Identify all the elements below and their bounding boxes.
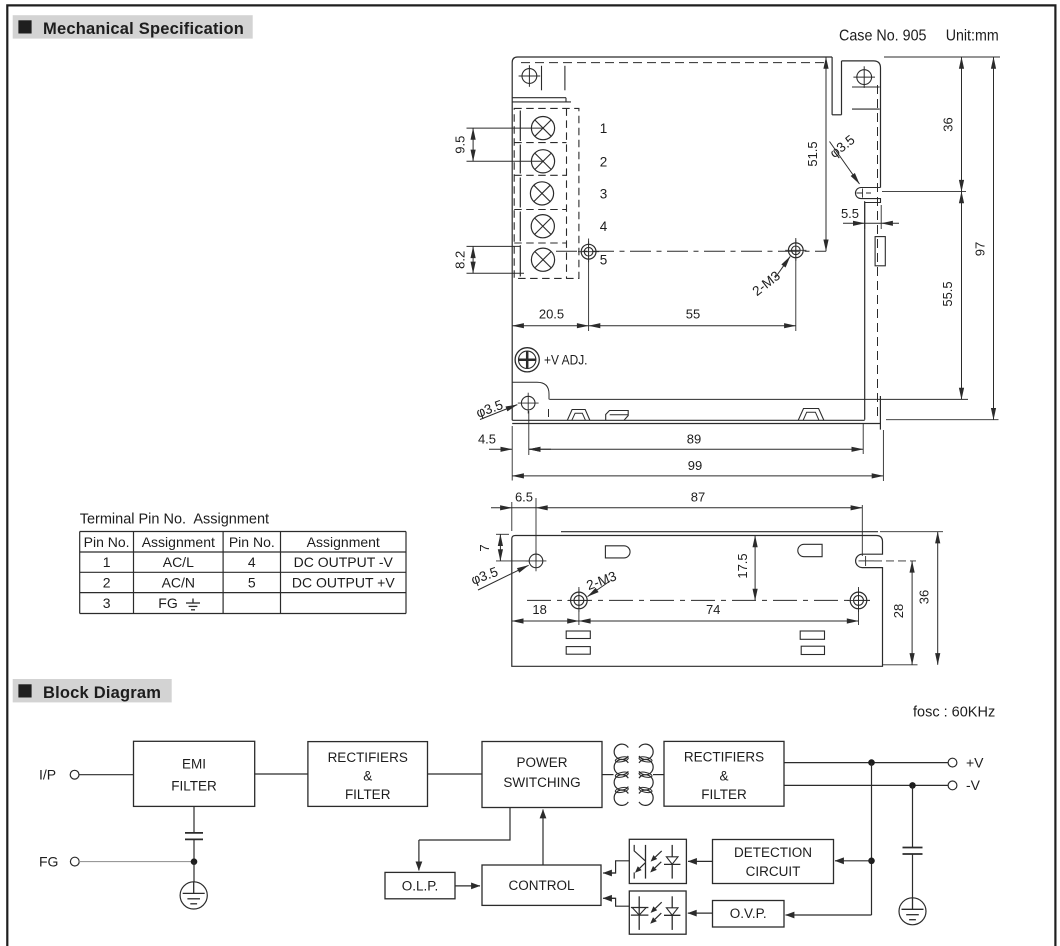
mounting hole phi3.5 (bottom-left) <box>521 396 535 410</box>
dim 9.5 extension lines <box>467 127 545 129</box>
terminal +V <box>948 758 957 767</box>
wire opto-isolator U2 to CONTROL (arrow) <box>606 898 629 906</box>
wire EMI FILTER to RECTIFIERS 1 <box>255 773 308 775</box>
block DETECTION CIRCUIT <box>713 840 834 884</box>
block O.L.P. <box>385 872 455 898</box>
opto-isolator U2 light arrows <box>655 902 661 908</box>
terminal 4 <box>531 215 554 238</box>
svg-text:FILTER: FILTER <box>171 779 217 794</box>
block CONTROL <box>482 865 601 905</box>
dim 55 <box>589 325 796 327</box>
dim 5.5 <box>843 222 865 224</box>
wire RECTIFIERS 1 to POWER SWITCHING <box>428 773 483 775</box>
top view: side clip tab <box>875 237 885 266</box>
svg-text:FG: FG <box>158 595 177 611</box>
opto-isolator U2 box <box>629 891 686 934</box>
svg-text:CONTROL: CONTROL <box>508 878 574 893</box>
dim 7 <box>499 534 501 561</box>
svg-text:-V: -V <box>966 777 981 793</box>
wire capacitor to ground <box>912 854 914 898</box>
screw hole in left tab <box>522 69 537 84</box>
wire O.L.P. to CONTROL (arrow) <box>455 885 480 887</box>
screw hole in right tab <box>857 70 872 85</box>
top view: cover top edge (hidden, dashed) <box>521 62 824 64</box>
svg-text:Block Diagram: Block Diagram <box>43 684 161 702</box>
side view: screw 2-M3 right <box>850 592 867 609</box>
svg-text:DC OUTPUT +V: DC OUTPUT +V <box>292 575 395 591</box>
dim 87 <box>536 507 862 509</box>
block RECTIFIERS & FILTER (input) <box>308 742 428 807</box>
wire transformer to RECTIFIERS 2 <box>653 774 664 776</box>
side view: slot cross ticks <box>859 560 875 562</box>
wire into DETECTION CIRCUIT (arrow) <box>835 860 872 862</box>
svg-text:87: 87 <box>691 490 705 505</box>
top view: rear notch <box>831 57 833 115</box>
opto-isolator U2 photodiode <box>638 896 640 930</box>
top view: foot clip 2 <box>606 411 629 421</box>
svg-text:&: & <box>719 769 728 784</box>
terminal block outline (dashed) <box>514 108 579 278</box>
top view: bottom-right flange <box>879 396 881 430</box>
wire POWER SWITCHING to O.L.P. (arrow down) <box>419 808 510 841</box>
svg-text:+V: +V <box>966 754 984 770</box>
opto-isolator U1 phototransistor <box>645 845 647 879</box>
top view: left edge <box>511 103 513 420</box>
top view: foot tab 1 (trapezoid) <box>567 410 590 421</box>
side view: top slot right (rounded left end) <box>798 544 822 556</box>
capacitor below EMI FILTER <box>193 806 195 833</box>
top view: left mounting tab <box>512 97 566 99</box>
svg-text:51.5: 51.5 <box>805 141 820 166</box>
svg-text:1: 1 <box>103 554 111 570</box>
dim 36 (top view) <box>961 57 963 192</box>
wire node to ground (input) <box>193 862 195 882</box>
block O.V.P. <box>713 901 785 928</box>
top view: bottom-left corner bracket <box>512 382 549 399</box>
svg-text:Terminal Pin No. Assignment: Terminal Pin No. Assignment <box>80 512 269 528</box>
opto-isolator U1 LED <box>671 845 673 857</box>
svg-text:O.V.P.: O.V.P. <box>730 906 767 921</box>
dim 17.5 <box>754 536 756 601</box>
svg-text:DETECTION: DETECTION <box>734 845 812 860</box>
svg-text:+V ADJ.: +V ADJ. <box>544 352 588 367</box>
dim 87 extension line (right) <box>861 505 863 556</box>
dim 9.5 <box>472 128 474 161</box>
svg-text:8.2: 8.2 <box>453 251 468 269</box>
node FG/capacitor junction <box>191 858 198 865</box>
dim 8.2 extension lines <box>467 245 521 247</box>
node on -V line <box>909 782 916 789</box>
wire -V output <box>784 784 948 786</box>
svg-text:FILTER: FILTER <box>345 787 391 802</box>
ground (output) <box>899 898 926 925</box>
dim 89 extension line (right) <box>862 424 864 454</box>
dim 6.5 extension lines <box>511 502 513 531</box>
wire +V output <box>784 762 948 764</box>
svg-text:Pin No.: Pin No. <box>84 534 130 550</box>
svg-text:4.5: 4.5 <box>478 432 496 447</box>
svg-text:18: 18 <box>532 602 546 617</box>
terminal 1 <box>531 117 554 140</box>
block RECTIFIERS & FILTER (output) <box>664 741 784 806</box>
svg-text:1: 1 <box>600 121 608 136</box>
chassis screw hole 2-M3 right (top view) <box>788 243 803 258</box>
wire I/P to EMI FILTER <box>79 774 134 776</box>
terminal 5 <box>531 248 554 271</box>
svg-text:Pin No.: Pin No. <box>229 534 275 550</box>
terminal block cell separators (dashed) <box>514 142 566 144</box>
wire FG to ground node <box>79 861 194 863</box>
dim 99 extension line (right) <box>882 430 884 481</box>
dim 4.5 <box>489 448 512 450</box>
svg-text:74: 74 <box>706 602 720 617</box>
svg-text:9.5: 9.5 <box>453 136 468 154</box>
top view: right mounting tab <box>842 61 881 188</box>
dim 4.5 extension lines <box>511 426 513 481</box>
svg-text:FG: FG <box>39 854 58 870</box>
potentiometer +V ADJ. <box>515 348 539 372</box>
svg-text:DC OUTPUT -V: DC OUTPUT -V <box>294 554 394 570</box>
svg-text:AC/L: AC/L <box>163 554 194 570</box>
side view: vent slots bottom right <box>800 631 824 639</box>
side view: top slot left (rounded right end) <box>605 546 630 558</box>
wire +V node down to detection/OVP <box>871 763 873 915</box>
svg-text:2: 2 <box>600 154 608 169</box>
top view: phi3.5 screw slot on right edge <box>855 188 880 203</box>
svg-text:SWITCHING: SWITCHING <box>503 775 580 790</box>
terminal 3 <box>530 182 553 205</box>
ground (input) <box>180 882 207 909</box>
svg-text:36: 36 <box>941 117 956 131</box>
svg-text:97: 97 <box>973 242 988 256</box>
svg-text:CIRCUIT: CIRCUIT <box>746 864 801 879</box>
dim 51.5 <box>825 57 827 251</box>
dim 74 <box>579 620 859 622</box>
svg-text:Assignment: Assignment <box>307 534 380 550</box>
center line through M3 holes (dashed) <box>556 250 826 252</box>
transformer T1 primary winding <box>614 744 628 805</box>
svg-text:4: 4 <box>248 554 256 570</box>
svg-text:6.5: 6.5 <box>515 490 533 505</box>
svg-text:99: 99 <box>688 458 702 473</box>
terminal pin assignment table grid <box>80 531 406 533</box>
opto-isolator U1 light arrows <box>655 851 661 857</box>
svg-text:FILTER: FILTER <box>701 787 747 802</box>
wire opto-isolator U1 to CONTROL (arrow) <box>606 861 629 873</box>
side view: mounting hole phi3.5 left <box>529 554 543 568</box>
dim 6.5 <box>491 507 512 509</box>
svg-text:5: 5 <box>600 253 608 268</box>
svg-text:O.L.P.: O.L.P. <box>402 878 439 893</box>
svg-text:Case No. 905: Case No. 905 <box>839 27 927 44</box>
svg-text:EMI: EMI <box>182 757 206 772</box>
wire into O.V.P. (arrow) <box>786 914 872 916</box>
dim 36 (side view) <box>937 532 939 665</box>
svg-text:Mechanical Specification: Mechanical Specification <box>43 20 244 38</box>
side view: center line (dashed) <box>527 599 870 601</box>
svg-text:Unit:mm: Unit:mm <box>946 27 999 44</box>
side view: outline <box>512 532 883 667</box>
dim 55.5 <box>961 192 963 400</box>
svg-text:3: 3 <box>600 186 608 201</box>
wire DETECTION to opto-isolator 1 (arrow) <box>688 860 713 862</box>
side view: screw 2-M3 left <box>571 592 588 609</box>
side view: vent slots bottom left <box>566 631 590 639</box>
svg-text:17.5: 17.5 <box>735 553 750 578</box>
block POWER SWITCHING <box>482 742 602 808</box>
terminal 2 <box>531 150 554 173</box>
dim 97 extension line (bottom) <box>886 419 999 421</box>
svg-text:POWER: POWER <box>516 755 567 770</box>
opto-isolator U2 LED <box>671 896 673 908</box>
top view: right side wall <box>864 202 866 420</box>
dim 36 extension lines (right) <box>884 56 1000 58</box>
svg-text:2: 2 <box>103 575 111 591</box>
dim 28 extension lines <box>883 664 918 666</box>
svg-text:3: 3 <box>103 595 111 611</box>
section header: Mechanical Specification <box>13 15 253 38</box>
dim 5.5 extension lines <box>864 201 866 229</box>
block EMI FILTER <box>134 741 255 806</box>
svg-text:5.5: 5.5 <box>841 206 859 221</box>
terminal block inner wall segments <box>519 111 521 142</box>
wire -V node to output capacitor <box>912 785 914 847</box>
dim 7 extension lines <box>496 533 509 535</box>
dim 20.5 <box>512 325 588 327</box>
section header: Block Diagram <box>13 679 172 702</box>
svg-text:I/P: I/P <box>39 767 56 783</box>
svg-text:fosc : 60KHz: fosc : 60KHz <box>913 705 995 721</box>
dim 97 <box>993 57 995 420</box>
dim 99 <box>512 475 883 477</box>
svg-text:89: 89 <box>687 432 701 447</box>
top view: foot tab 3 (trapezoid) <box>798 409 824 421</box>
svg-text:36: 36 <box>917 590 932 604</box>
chassis screw hole 2-M3 left <box>581 244 596 259</box>
svg-text:55: 55 <box>686 306 700 321</box>
svg-text:RECTIFIERS: RECTIFIERS <box>328 750 408 765</box>
svg-text:5: 5 <box>248 575 256 591</box>
svg-text:4: 4 <box>600 219 608 234</box>
dim 8.2 <box>472 246 474 273</box>
svg-text:20.5: 20.5 <box>539 306 564 321</box>
wire O.V.P. to opto-isolator 2 (arrow) <box>688 912 713 914</box>
node at detection branch <box>868 858 875 865</box>
top view: bottom edge (double line) <box>512 419 865 421</box>
dim 18 <box>512 620 579 622</box>
svg-text:RECTIFIERS: RECTIFIERS <box>684 750 764 765</box>
svg-text:Assignment: Assignment <box>142 534 215 550</box>
output capacitor <box>903 847 923 849</box>
wire POWER SWITCHING to transformer <box>602 774 614 776</box>
dim 28 <box>911 561 913 665</box>
svg-text:7: 7 <box>477 544 492 551</box>
top view: case outline top edge <box>512 57 832 103</box>
node on +V line <box>868 759 875 766</box>
svg-text:AC/N: AC/N <box>162 575 195 591</box>
transformer T1 secondary winding <box>639 744 653 805</box>
dim 36 extension lines (side view) <box>880 531 943 533</box>
terminal -V <box>948 781 957 790</box>
top view: inner bottom line <box>549 398 968 400</box>
svg-text:28: 28 <box>891 604 906 618</box>
top view: cover right edge (hidden, dashed) <box>877 85 879 419</box>
side view: slot center dash to right <box>874 560 916 562</box>
svg-text:&: & <box>363 769 372 784</box>
wire CONTROL to POWER SWITCHING (arrow up) <box>542 810 544 866</box>
opto-isolator U1 box <box>629 839 686 883</box>
svg-text:55.5: 55.5 <box>940 281 955 306</box>
dim 89 <box>529 448 863 450</box>
